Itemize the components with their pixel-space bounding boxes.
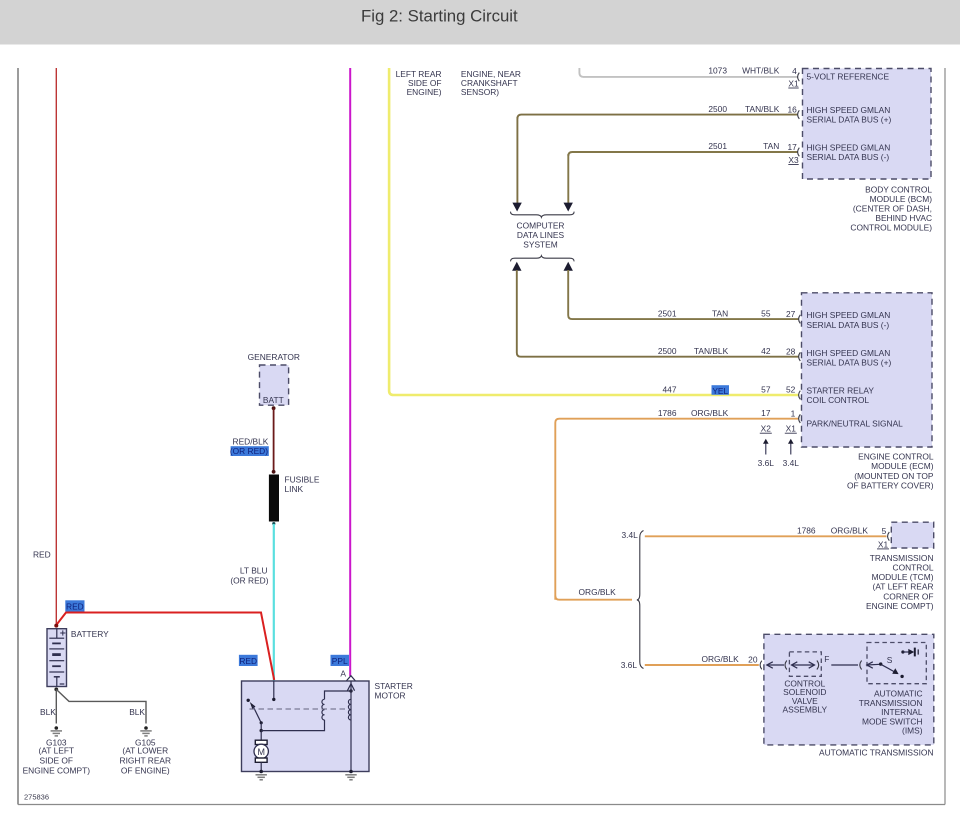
junction battery negative bbox=[54, 688, 58, 692]
wire 1073 WHT/BLK to BCM pin 4 bbox=[579, 68, 797, 77]
pull-in winding (coil) bbox=[322, 699, 325, 720]
module control solenoid valve assembly box bbox=[789, 652, 821, 676]
svg-text:WHT/BLK: WHT/BLK bbox=[742, 66, 780, 76]
svg-text:OF ENGINE): OF ENGINE) bbox=[121, 766, 170, 776]
svg-text:ASSEMBLY: ASSEMBLY bbox=[783, 705, 828, 715]
svg-text:28: 28 bbox=[786, 346, 796, 356]
svg-text:ORG/BLK: ORG/BLK bbox=[701, 654, 739, 664]
svg-text:RED: RED bbox=[33, 550, 51, 560]
brace under arrows bbox=[511, 212, 575, 218]
header bar bbox=[0, 0, 960, 45]
svg-text:2501: 2501 bbox=[708, 141, 727, 151]
svg-text:M: M bbox=[257, 747, 265, 757]
connector X1 label (TCM) bbox=[877, 539, 889, 549]
svg-text:MOTOR: MOTOR bbox=[375, 690, 406, 700]
svg-text:RED: RED bbox=[239, 656, 257, 666]
solenoid contact fixed post bbox=[247, 699, 250, 702]
svg-text:ORG/BLK: ORG/BLK bbox=[831, 526, 869, 536]
svg-text:FUSIBLE: FUSIBLE bbox=[285, 475, 320, 485]
svg-text:BEHIND HVAC: BEHIND HVAC bbox=[875, 213, 932, 223]
wire 2500 TAN/BLK to BCM pin 16 bbox=[517, 115, 797, 119]
pin arc ECM pin 1 bbox=[799, 414, 801, 423]
svg-text:2501: 2501 bbox=[658, 308, 677, 318]
wire LT BLU fusible link to starter bbox=[273, 524, 275, 681]
switch S (IMS selector) bbox=[879, 655, 904, 678]
svg-text:ENGINE CONTROL: ENGINE CONTROL bbox=[858, 452, 934, 462]
pin arc BCM pin 4 bbox=[798, 73, 800, 82]
pin arc IMS left bbox=[860, 661, 862, 670]
svg-text:1073: 1073 bbox=[708, 66, 727, 76]
wire through CSVA bbox=[792, 662, 815, 668]
fusible link bbox=[269, 475, 279, 522]
svg-text:BLK: BLK bbox=[129, 707, 145, 717]
svg-text:RIGHT REAR: RIGHT REAR bbox=[120, 755, 172, 765]
svg-text:(MOUNTED ON TOP: (MOUNTED ON TOP bbox=[854, 471, 934, 481]
connector X3 label bbox=[788, 155, 799, 165]
svg-text:HIGH SPEED GMLAN: HIGH SPEED GMLAN bbox=[807, 310, 891, 320]
svg-text:ORG/BLK: ORG/BLK bbox=[579, 587, 617, 597]
svg-text:STARTER: STARTER bbox=[375, 681, 413, 691]
starter motor box bbox=[242, 681, 370, 772]
svg-text:TAN/BLK: TAN/BLK bbox=[694, 346, 729, 356]
svg-text:17: 17 bbox=[787, 142, 797, 152]
ground solenoid winding (starter case) bbox=[345, 770, 356, 780]
svg-text:RED: RED bbox=[66, 601, 84, 611]
arrow up out of computer data lines system (right) bbox=[564, 262, 573, 271]
junction motor feed node bbox=[260, 729, 263, 732]
svg-text:3.6L: 3.6L bbox=[758, 458, 775, 468]
svg-text:HIGH SPEED GMLAN: HIGH SPEED GMLAN bbox=[807, 348, 891, 358]
pin arc ECM pin 27 bbox=[799, 315, 801, 324]
IMS fixed contact bbox=[901, 648, 918, 657]
svg-text:X1: X1 bbox=[788, 78, 799, 88]
svg-text:57: 57 bbox=[761, 384, 771, 394]
arrow down into computer data lines system (right) bbox=[564, 203, 573, 212]
svg-text:2500: 2500 bbox=[658, 346, 677, 356]
svg-text:MODULE (ECM): MODULE (ECM) bbox=[871, 461, 934, 471]
module automatic transmission box bbox=[764, 634, 934, 745]
svg-text:SIDE OF: SIDE OF bbox=[40, 755, 74, 765]
label PPL (highlighted) bbox=[331, 655, 350, 666]
solenoid terminal stem with up arrow bbox=[347, 681, 354, 772]
battery plus terminal mark bbox=[60, 630, 65, 635]
ground motor (starter case) bbox=[256, 770, 267, 780]
svg-text:275836: 275836 bbox=[24, 793, 49, 802]
svg-text:CONTROL MODULE): CONTROL MODULE) bbox=[850, 222, 932, 232]
battery internal plates bbox=[49, 629, 64, 687]
pin arc CSVA left bbox=[785, 661, 787, 670]
svg-text:LINK: LINK bbox=[285, 484, 304, 494]
svg-text:HIGH SPEED GMLAN: HIGH SPEED GMLAN bbox=[807, 142, 891, 152]
pin arc automatic transmission pin 20 bbox=[760, 661, 762, 670]
wire BLK battery to G103 bbox=[55, 689, 57, 723]
module ECM box bbox=[802, 293, 933, 447]
svg-text:55: 55 bbox=[761, 308, 771, 318]
svg-text:HIGH SPEED GMLAN: HIGH SPEED GMLAN bbox=[807, 105, 891, 115]
svg-text:X2: X2 bbox=[761, 424, 772, 434]
connector X2 label bbox=[760, 424, 772, 434]
svg-text:(AT LOWER: (AT LOWER bbox=[122, 746, 168, 756]
svg-text:RED/BLK: RED/BLK bbox=[233, 437, 269, 447]
svg-text:447: 447 bbox=[663, 384, 677, 394]
junction at solenoid terminal stem bbox=[349, 689, 352, 692]
svg-text:5-VOLT REFERENCE: 5-VOLT REFERENCE bbox=[807, 71, 890, 81]
pin arc CSVA right (exit) bbox=[817, 661, 819, 670]
wire ORG/BLK horizontal into split brace bbox=[555, 596, 632, 600]
pin arc ECM pin 28 bbox=[799, 352, 801, 361]
svg-text:STARTER RELAY: STARTER RELAY bbox=[807, 385, 875, 395]
svg-text:S: S bbox=[887, 655, 893, 665]
svg-text:GENERATOR: GENERATOR bbox=[248, 352, 300, 362]
svg-text:SERIAL DATA BUS (+): SERIAL DATA BUS (+) bbox=[807, 357, 892, 367]
svg-text:1786: 1786 bbox=[797, 526, 816, 536]
svg-text:TAN/BLK: TAN/BLK bbox=[745, 104, 780, 114]
engine variant split brace bbox=[637, 531, 644, 669]
pin arc TCM pin 5 bbox=[888, 532, 890, 541]
svg-text:16: 16 bbox=[787, 104, 797, 114]
wire motor to case ground bbox=[260, 762, 262, 771]
svg-text:SERIAL DATA BUS (-): SERIAL DATA BUS (-) bbox=[807, 320, 890, 330]
wire 1786 ORG/BLK to TCM pin 5 bbox=[645, 535, 887, 537]
engine variant arrow 3.4L bbox=[783, 439, 800, 468]
wire 1786 ORG/BLK to ECM pin 1 bbox=[555, 419, 798, 600]
wire motor node to motor brush bbox=[260, 731, 262, 741]
wire motor node to pull-in winding bottom bbox=[261, 720, 324, 731]
frame right border bbox=[944, 68, 946, 805]
label YEL (highlighted) bbox=[712, 385, 730, 396]
svg-text:3.4L: 3.4L bbox=[783, 458, 800, 468]
svg-text:COMPUTER: COMPUTER bbox=[517, 220, 565, 230]
wire into control solenoid valve assembly bbox=[767, 662, 784, 668]
wire solenoid input from battery/ignition feed bbox=[273, 681, 275, 699]
junction at generator BATT bbox=[272, 406, 276, 410]
svg-text:SERIAL DATA BUS (-): SERIAL DATA BUS (-) bbox=[807, 152, 890, 162]
svg-text:3.6L: 3.6L bbox=[621, 660, 638, 670]
pin arc BCM pin 16 bbox=[798, 110, 800, 119]
solenoid moving contact blade bbox=[250, 702, 261, 723]
svg-text:LT BLU: LT BLU bbox=[240, 566, 268, 576]
wire 2500 TAN/BLK vertical drop to data-lines brace bbox=[516, 117, 518, 203]
wire BLK battery to G105 bbox=[56, 689, 146, 723]
module BCM box bbox=[803, 69, 932, 180]
svg-text:MODULE (BCM): MODULE (BCM) bbox=[870, 194, 933, 204]
connector X1 label bbox=[785, 424, 797, 434]
svg-text:42: 42 bbox=[761, 346, 771, 356]
arrow down into computer data lines system (left) bbox=[512, 203, 521, 212]
svg-text:TAN: TAN bbox=[712, 308, 728, 318]
junction battery positive bbox=[54, 624, 58, 628]
wire 2501 TAN vertical drop to data-lines brace bbox=[567, 154, 569, 203]
svg-text:(IMS): (IMS) bbox=[902, 726, 923, 736]
svg-text:5: 5 bbox=[882, 526, 887, 536]
svg-text:ENGINE COMPT): ENGINE COMPT) bbox=[866, 601, 934, 611]
ground G105 bbox=[140, 726, 151, 736]
wire from CSVA to IMS bbox=[831, 664, 858, 666]
svg-text:20: 20 bbox=[748, 654, 758, 664]
brace above arrows bbox=[511, 256, 575, 262]
svg-text:CONTROL: CONTROL bbox=[893, 563, 934, 573]
svg-text:27: 27 bbox=[786, 309, 796, 319]
svg-text:AUTOMATIC TRANSMISSION: AUTOMATIC TRANSMISSION bbox=[819, 747, 933, 757]
frame left border bbox=[17, 68, 19, 805]
motor M bbox=[254, 740, 268, 762]
wire YEL vertical+horizontal to ECM starter relay coil control bbox=[389, 68, 798, 395]
module IMS box bbox=[867, 643, 926, 684]
generator box bbox=[260, 365, 289, 405]
label (OR RED) (highlighted) bbox=[230, 446, 269, 456]
wire 1786 ORG/BLK to automatic transmission pin 20 bbox=[645, 664, 759, 666]
module TCM box bbox=[891, 522, 933, 548]
svg-text:52: 52 bbox=[786, 385, 796, 395]
pin arc ECM pin 52 bbox=[799, 391, 801, 400]
svg-text:MODULE (TCM): MODULE (TCM) bbox=[872, 572, 934, 582]
engine variant arrow 3.6L bbox=[758, 439, 775, 468]
svg-text:OF BATTERY COVER): OF BATTERY COVER) bbox=[847, 481, 934, 491]
hold-in winding (coil) bbox=[348, 699, 351, 720]
battery minus terminal mark bbox=[60, 683, 65, 685]
svg-text:TAN: TAN bbox=[763, 141, 779, 151]
frame bottom border bbox=[18, 804, 945, 806]
svg-text:F: F bbox=[824, 654, 829, 664]
junction blade to motor lead bbox=[260, 721, 263, 724]
svg-text:1: 1 bbox=[791, 408, 796, 418]
arrow up out of computer data lines system (left) bbox=[512, 262, 521, 271]
svg-text:(AT LEFT REAR: (AT LEFT REAR bbox=[873, 582, 934, 592]
svg-text:(OR RED): (OR RED) bbox=[230, 446, 268, 456]
svg-text:ENGINE COMPT): ENGINE COMPT) bbox=[23, 766, 91, 776]
svg-text:BATTERY: BATTERY bbox=[71, 629, 109, 639]
svg-text:PPL: PPL bbox=[332, 656, 348, 666]
svg-text:1786: 1786 bbox=[658, 408, 677, 418]
svg-text:2500: 2500 bbox=[708, 104, 727, 114]
svg-text:(AT LEFT: (AT LEFT bbox=[39, 746, 75, 756]
svg-text:BODY CONTROL: BODY CONTROL bbox=[865, 184, 932, 194]
svg-text:ORG/BLK: ORG/BLK bbox=[691, 408, 729, 418]
svg-text:(OR RED): (OR RED) bbox=[230, 575, 268, 585]
battery box bbox=[47, 629, 67, 687]
svg-text:X1: X1 bbox=[878, 539, 889, 549]
svg-text:X3: X3 bbox=[788, 155, 799, 165]
svg-text:(CENTER OF DASH,: (CENTER OF DASH, bbox=[853, 203, 932, 213]
ground G103 bbox=[51, 726, 62, 736]
svg-text:ENGINE): ENGINE) bbox=[407, 87, 442, 97]
mechanical linkage dashed line bbox=[250, 708, 349, 710]
wire PPL vertical from top to starter terminal A bbox=[349, 68, 351, 676]
svg-text:DATA LINES: DATA LINES bbox=[517, 230, 565, 240]
svg-text:SERIAL DATA BUS (+): SERIAL DATA BUS (+) bbox=[807, 115, 892, 125]
label RED (highlighted, at battery feed) bbox=[65, 600, 84, 611]
svg-text:X1: X1 bbox=[786, 424, 797, 434]
wire blade to motor junction bbox=[260, 723, 262, 731]
svg-text:YEL: YEL bbox=[712, 386, 728, 396]
svg-text:SENSOR): SENSOR) bbox=[461, 87, 499, 97]
svg-text:COIL CONTROL: COIL CONTROL bbox=[807, 395, 870, 405]
junction at fusible link bottom bbox=[272, 522, 275, 525]
svg-text:CORNER OF: CORNER OF bbox=[883, 591, 933, 601]
wire pull-in winding top to solenoid terminal bbox=[325, 691, 352, 699]
svg-text:3.4L: 3.4L bbox=[621, 530, 638, 540]
wire stub into IMS switch bbox=[867, 662, 880, 668]
svg-text:BLK: BLK bbox=[40, 707, 56, 717]
wire RED battery jumper to starter bbox=[56, 613, 274, 681]
wire RED/BLK generator to fusible link bbox=[273, 408, 275, 472]
svg-text:PARK/NEUTRAL SIGNAL: PARK/NEUTRAL SIGNAL bbox=[807, 418, 904, 428]
wire TAN vertical down to ECM row 2501 bbox=[568, 270, 798, 319]
junction at fusible link top bbox=[272, 470, 276, 474]
svg-text:SYSTEM: SYSTEM bbox=[523, 239, 557, 249]
wire RED vertical from top to battery bbox=[55, 68, 57, 625]
svg-text:4: 4 bbox=[792, 66, 797, 76]
pin arc BCM pin 17 bbox=[798, 148, 800, 157]
connector X1 label bbox=[788, 78, 799, 88]
label RED (highlighted, at starter) bbox=[239, 655, 258, 666]
svg-text:TRANSMISSION: TRANSMISSION bbox=[870, 553, 934, 563]
svg-text:Fig 2: Starting Circuit: Fig 2: Starting Circuit bbox=[361, 7, 518, 26]
svg-text:BATT: BATT bbox=[263, 395, 284, 405]
wire TAN/BLK vertical down to ECM row 2500 bbox=[517, 270, 799, 357]
svg-text:A: A bbox=[340, 669, 346, 679]
wire 2501 TAN to BCM pin 17 bbox=[568, 152, 797, 156]
junction solenoid input bbox=[272, 698, 275, 701]
svg-text:17: 17 bbox=[761, 408, 771, 418]
